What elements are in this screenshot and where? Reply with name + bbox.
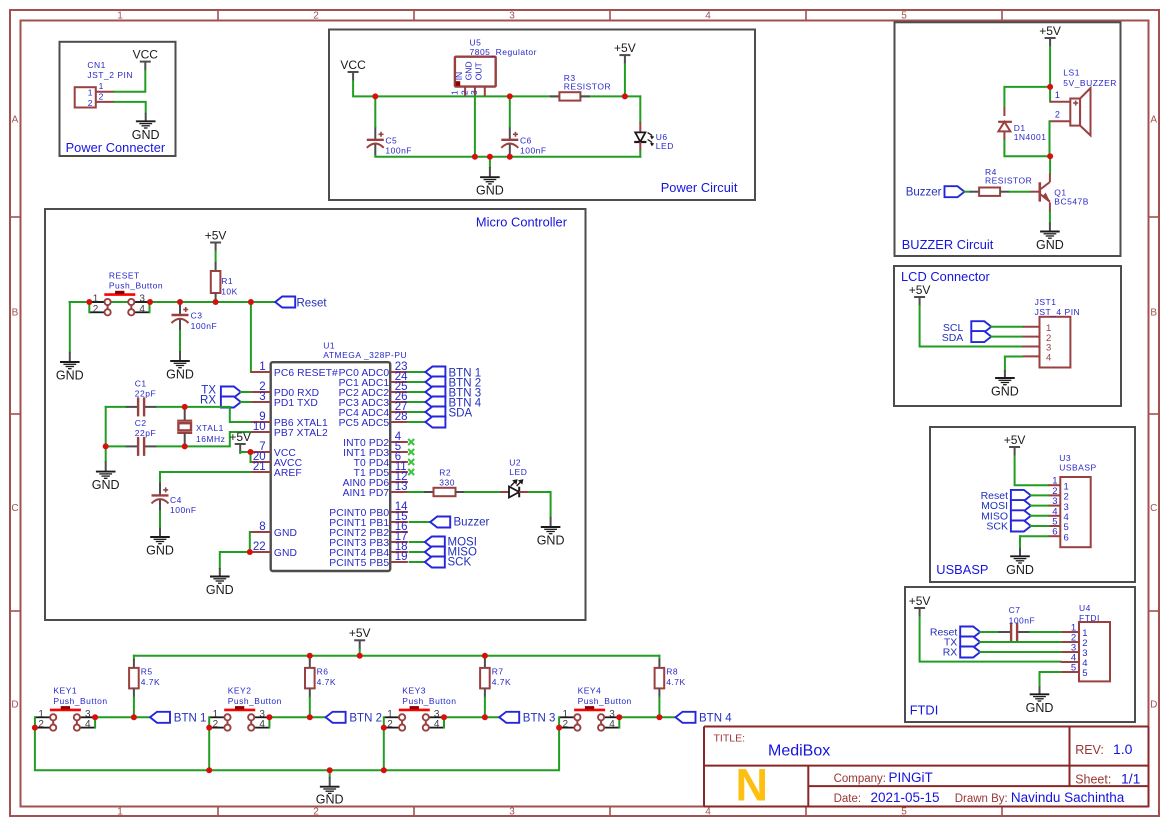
- svg-text:GND: GND: [166, 368, 194, 382]
- svg-text:2: 2: [313, 11, 319, 22]
- svg-text:RESISTOR: RESISTOR: [564, 81, 611, 91]
- svg-text:+5V: +5V: [229, 430, 251, 444]
- svg-text:2: 2: [563, 719, 569, 730]
- svg-text:2: 2: [38, 719, 44, 730]
- svg-text:CN1: CN1: [87, 60, 106, 70]
- svg-text:GND: GND: [274, 528, 297, 539]
- svg-text:+5V: +5V: [909, 594, 931, 608]
- svg-text:Buzzer: Buzzer: [454, 516, 490, 528]
- svg-text:JST_4 PIN: JST_4 PIN: [1035, 307, 1081, 317]
- svg-text:330: 330: [439, 477, 455, 487]
- svg-text:4: 4: [1046, 353, 1051, 364]
- svg-text:+5V: +5V: [205, 228, 227, 242]
- svg-text:Reset: Reset: [297, 297, 328, 309]
- svg-text:BTN 4: BTN 4: [699, 713, 732, 725]
- svg-text:B: B: [12, 308, 19, 319]
- svg-text:SDA: SDA: [449, 407, 473, 419]
- svg-text:R6: R6: [317, 667, 329, 677]
- svg-text:3: 3: [259, 709, 265, 720]
- svg-text:4: 4: [85, 719, 91, 730]
- svg-text:4.7K: 4.7K: [141, 677, 161, 687]
- svg-text:Push_Button: Push_Button: [228, 696, 282, 706]
- svg-text:Micro Controller: Micro Controller: [476, 214, 568, 229]
- svg-text:+5V: +5V: [1039, 24, 1061, 38]
- svg-text:GND: GND: [991, 385, 1019, 399]
- svg-text:Push_Button: Push_Button: [53, 696, 107, 706]
- svg-text:10: 10: [253, 421, 266, 433]
- svg-text:R5: R5: [141, 667, 153, 677]
- svg-text:FTDI: FTDI: [910, 703, 939, 718]
- svg-text:GND: GND: [274, 548, 297, 559]
- svg-text:C: C: [11, 503, 18, 514]
- svg-text:RESET: RESET: [109, 270, 140, 280]
- svg-text:1: 1: [99, 81, 104, 91]
- svg-text:KEY2: KEY2: [228, 686, 252, 696]
- svg-text:100nF: 100nF: [1009, 616, 1036, 626]
- svg-text:C7: C7: [1009, 605, 1021, 615]
- svg-text:1: 1: [117, 807, 123, 818]
- svg-text:LED: LED: [509, 467, 527, 477]
- svg-text:VCC: VCC: [340, 58, 366, 72]
- svg-text:100nF: 100nF: [191, 321, 218, 331]
- svg-text:3: 3: [509, 807, 515, 818]
- svg-text:Company:: Company:: [834, 773, 886, 785]
- svg-text:100nF: 100nF: [170, 505, 197, 515]
- svg-text:+5V: +5V: [614, 41, 636, 55]
- svg-text:Buzzer: Buzzer: [906, 187, 942, 199]
- svg-text:R2: R2: [439, 468, 451, 478]
- svg-text:1: 1: [387, 709, 393, 720]
- svg-text:4.7K: 4.7K: [492, 677, 512, 687]
- svg-text:1: 1: [38, 709, 44, 720]
- svg-text:C1: C1: [135, 379, 147, 389]
- svg-text:OUT: OUT: [473, 62, 483, 80]
- svg-text:4: 4: [705, 11, 711, 22]
- svg-text:+5V: +5V: [349, 626, 371, 640]
- svg-text:4.7K: 4.7K: [317, 677, 337, 687]
- svg-text:GND: GND: [1026, 701, 1054, 715]
- svg-text:BTN 3: BTN 3: [523, 713, 556, 725]
- svg-text:A: A: [12, 115, 19, 126]
- svg-text:22pF: 22pF: [135, 389, 156, 399]
- svg-text:5: 5: [901, 807, 907, 818]
- svg-text:MediBox: MediBox: [768, 742, 830, 759]
- svg-text:4: 4: [434, 719, 440, 730]
- svg-text:GND: GND: [132, 128, 160, 142]
- svg-text:D: D: [11, 700, 18, 711]
- svg-text:KEY4: KEY4: [578, 686, 602, 696]
- svg-text:JST_2 PIN: JST_2 PIN: [87, 70, 133, 80]
- svg-text:3: 3: [139, 294, 145, 305]
- svg-text:5: 5: [901, 11, 907, 22]
- svg-text:5: 5: [1082, 668, 1087, 679]
- svg-text:5V_BUZZER: 5V_BUZZER: [1063, 78, 1117, 88]
- svg-text:19: 19: [395, 551, 408, 563]
- svg-text:1N4001: 1N4001: [1014, 132, 1047, 142]
- svg-text:2: 2: [313, 807, 319, 818]
- svg-text:JST1: JST1: [1035, 297, 1057, 307]
- svg-text:6: 6: [1064, 532, 1069, 543]
- svg-text:3: 3: [509, 11, 515, 22]
- svg-text:R7: R7: [492, 667, 504, 677]
- svg-text:3: 3: [259, 391, 265, 403]
- svg-text:Navindu Sachintha: Navindu Sachintha: [1011, 790, 1125, 805]
- svg-text:GND: GND: [92, 478, 120, 492]
- svg-text:GND: GND: [464, 61, 474, 80]
- svg-text:KEY1: KEY1: [53, 686, 77, 696]
- svg-text:1: 1: [88, 88, 93, 98]
- svg-text:VCC: VCC: [133, 47, 159, 61]
- svg-text:Push_Button: Push_Button: [109, 281, 163, 291]
- svg-text:BTN 2: BTN 2: [349, 713, 382, 725]
- svg-text:100nF: 100nF: [520, 145, 547, 155]
- svg-text:2: 2: [99, 92, 104, 102]
- svg-text:GND: GND: [476, 184, 504, 198]
- svg-text:Power Connecter: Power Connecter: [66, 140, 166, 155]
- svg-text:BC547B: BC547B: [1054, 197, 1089, 207]
- svg-text:100nF: 100nF: [385, 145, 412, 155]
- svg-text:PC5 ADC5: PC5 ADC5: [339, 418, 390, 429]
- svg-text:21: 21: [253, 461, 266, 473]
- svg-text:GND: GND: [1036, 238, 1064, 252]
- svg-text:TITLE:: TITLE:: [714, 733, 746, 745]
- svg-text:REV:: REV:: [1075, 743, 1104, 757]
- svg-text:GND: GND: [316, 793, 344, 807]
- svg-text:LED: LED: [656, 141, 674, 151]
- svg-text:R1: R1: [221, 276, 233, 286]
- svg-text:2: 2: [459, 90, 469, 95]
- svg-text:4: 4: [609, 719, 615, 730]
- svg-text:ATMEGA _328P-PU: ATMEGA _328P-PU: [323, 350, 407, 360]
- svg-text:2: 2: [93, 304, 99, 315]
- svg-text:2: 2: [1055, 110, 1060, 120]
- svg-text:KEY3: KEY3: [402, 686, 426, 696]
- svg-text:Date:: Date:: [834, 793, 862, 805]
- svg-text:GND: GND: [206, 583, 234, 597]
- svg-text:C5: C5: [385, 136, 397, 146]
- svg-text:RX: RX: [200, 395, 216, 407]
- svg-text:GND: GND: [146, 544, 174, 558]
- svg-text:10K: 10K: [221, 286, 238, 296]
- svg-text:R8: R8: [666, 667, 678, 677]
- svg-text:Push_Button: Push_Button: [402, 696, 456, 706]
- svg-text:AIN1 PD7: AIN1 PD7: [343, 488, 390, 499]
- svg-text:PCINT5 PB5: PCINT5 PB5: [329, 558, 389, 569]
- svg-text:RX: RX: [943, 647, 958, 659]
- svg-text:16MHz: 16MHz: [196, 434, 225, 444]
- svg-text:+5V: +5V: [1004, 433, 1026, 447]
- svg-text:Sheet:: Sheet:: [1075, 772, 1111, 786]
- svg-text:5: 5: [1071, 663, 1076, 674]
- svg-text:XTAL1: XTAL1: [196, 423, 224, 433]
- svg-text:SCK: SCK: [986, 521, 1008, 533]
- svg-text:22pF: 22pF: [135, 428, 156, 438]
- svg-text:3: 3: [434, 709, 440, 720]
- svg-text:U5: U5: [470, 38, 482, 48]
- svg-text:6: 6: [1052, 527, 1057, 538]
- svg-text:AREF: AREF: [274, 468, 302, 479]
- svg-text:Push_Button: Push_Button: [578, 696, 632, 706]
- svg-text:A: A: [1150, 115, 1157, 126]
- svg-text:LCD Connector: LCD Connector: [901, 269, 991, 284]
- svg-text:4: 4: [259, 719, 265, 730]
- svg-text:U1: U1: [323, 340, 335, 350]
- svg-text:2: 2: [387, 719, 393, 730]
- svg-text:2: 2: [213, 719, 219, 730]
- svg-text:FTDI: FTDI: [1079, 613, 1100, 623]
- svg-text:SCK: SCK: [448, 557, 472, 569]
- svg-text:Power Circuit: Power Circuit: [661, 180, 738, 195]
- svg-text:4: 4: [705, 807, 711, 818]
- svg-text:LS1: LS1: [1063, 68, 1080, 78]
- svg-text:C3: C3: [191, 311, 203, 321]
- svg-text:4.7K: 4.7K: [666, 677, 686, 687]
- svg-text:1: 1: [213, 709, 219, 720]
- svg-text:PINGiT: PINGiT: [889, 770, 933, 785]
- svg-text:+5V: +5V: [909, 283, 931, 297]
- svg-text:3: 3: [85, 709, 91, 720]
- svg-text:1: 1: [450, 90, 460, 95]
- svg-text:B: B: [1150, 308, 1157, 319]
- svg-text:C6: C6: [520, 136, 532, 146]
- svg-text:3: 3: [469, 90, 479, 95]
- svg-text:GND: GND: [1006, 563, 1034, 577]
- svg-text:1: 1: [93, 294, 99, 305]
- svg-text:U4: U4: [1079, 603, 1091, 613]
- svg-text:PD1 TXD: PD1 TXD: [274, 398, 318, 409]
- svg-text:2: 2: [88, 98, 93, 108]
- svg-text:C2: C2: [135, 418, 147, 428]
- svg-text:C: C: [1150, 503, 1157, 514]
- svg-text:1: 1: [117, 11, 123, 22]
- svg-text:BUZZER Circuit: BUZZER Circuit: [902, 237, 994, 252]
- svg-text:BTN 1: BTN 1: [174, 713, 207, 725]
- svg-text:2021-05-15: 2021-05-15: [871, 790, 940, 805]
- svg-text:28: 28: [395, 411, 408, 423]
- svg-text:PC6 RESET#: PC6 RESET#: [274, 368, 338, 379]
- svg-text:1: 1: [1055, 90, 1060, 100]
- svg-text:PB7 XTAL2: PB7 XTAL2: [274, 428, 328, 439]
- svg-text:U2: U2: [509, 457, 521, 467]
- svg-text:3: 3: [609, 709, 615, 720]
- svg-text:N: N: [736, 760, 769, 811]
- svg-text:USBASP: USBASP: [1059, 462, 1097, 472]
- svg-text:C4: C4: [170, 495, 182, 505]
- svg-text:1: 1: [259, 361, 265, 373]
- svg-text:RESISTOR: RESISTOR: [985, 176, 1032, 186]
- svg-text:4: 4: [139, 304, 145, 315]
- svg-text:7805_Regulator: 7805_Regulator: [470, 47, 538, 57]
- svg-text:GND: GND: [537, 534, 565, 548]
- svg-text:SDA: SDA: [942, 332, 964, 344]
- svg-text:IN: IN: [454, 72, 464, 81]
- svg-text:D: D: [1150, 700, 1157, 711]
- svg-text:1/1: 1/1: [1121, 770, 1141, 786]
- svg-text:1.0: 1.0: [1113, 741, 1133, 757]
- svg-text:13: 13: [395, 481, 408, 493]
- svg-text:USBASP: USBASP: [936, 562, 988, 577]
- svg-text:GND: GND: [56, 369, 84, 383]
- svg-text:Drawn By:: Drawn By:: [955, 793, 1008, 805]
- svg-text:1: 1: [563, 709, 569, 720]
